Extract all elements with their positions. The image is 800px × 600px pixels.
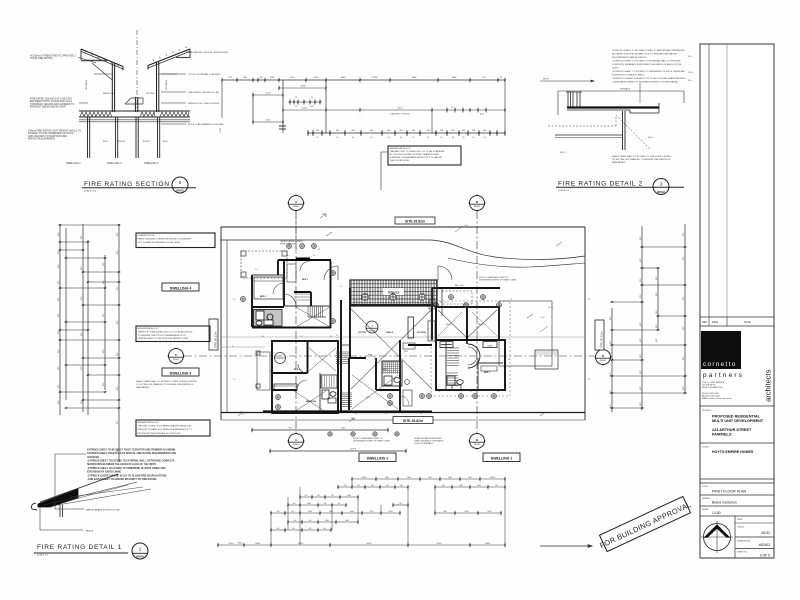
svg-text:DATE: DATE bbox=[712, 321, 719, 324]
svg-text:SITTING: SITTING bbox=[358, 332, 367, 334]
svg-text:FIRE RATING SECTION: FIRE RATING SECTION bbox=[84, 181, 170, 188]
svg-text:NOTE: NOTE bbox=[543, 79, 549, 81]
svg-text:11380: 11380 bbox=[372, 77, 378, 79]
svg-text:HOYTS EMPIRE HOMES: HOYTS EMPIRE HOMES bbox=[712, 450, 754, 454]
svg-text:JOB No: JOB No bbox=[737, 527, 745, 529]
svg-text:METRES AT THE FINISHED FLOOR L: METRES AT THE FINISHED FLOOR LEVEL bbox=[138, 432, 182, 435]
svg-text:architects: architects bbox=[764, 369, 773, 402]
svg-text:ENTRY: ENTRY bbox=[118, 141, 126, 143]
svg-text:SHEET CLADDING: SHEET CLADDING bbox=[280, 243, 297, 246]
svg-text:TO ENSURE THE PITCH TO A MAXIM: TO ENSURE THE PITCH TO A MAXIMUM OF 22 bbox=[138, 334, 187, 337]
svg-text:0000: 0000 bbox=[437, 543, 443, 545]
svg-text:DATE: DATE bbox=[737, 518, 743, 521]
svg-text:DWELLING 2: DWELLING 2 bbox=[367, 457, 389, 461]
svg-text:0000: 0000 bbox=[298, 543, 304, 545]
svg-text:WINDOW TO HAVE SILL HEIGHTS A: WINDOW TO HAVE SILL HEIGHTS A MINIMUM OF… bbox=[138, 428, 193, 431]
svg-text:WD401: WD401 bbox=[293, 444, 299, 446]
svg-text:90: 90 bbox=[473, 137, 475, 139]
svg-text:KITCHEN: KITCHEN bbox=[417, 332, 426, 334]
svg-text:MLS: MLS bbox=[163, 141, 168, 143]
svg-text:DWELLING 1: DWELLING 1 bbox=[491, 457, 513, 461]
svg-text:15: 15 bbox=[340, 286, 342, 288]
svg-text:35: 35 bbox=[588, 379, 590, 381]
svg-text:1k: 1k bbox=[295, 106, 297, 108]
svg-text:WD402: WD402 bbox=[173, 359, 179, 361]
svg-text:2,1: 2,1 bbox=[233, 379, 236, 381]
svg-text:SCALE 1:5: SCALE 1:5 bbox=[558, 189, 570, 192]
svg-text:SHEET No: SHEET No bbox=[737, 552, 748, 554]
svg-text:90: 90 bbox=[463, 137, 465, 139]
svg-text:UNITS: UNITS bbox=[612, 67, 619, 69]
svg-text:EXTENSION OF EAVES LINING: EXTENSION OF EAVES LINING bbox=[87, 471, 121, 474]
svg-text:BED 2: BED 2 bbox=[446, 324, 453, 326]
svg-text:DWELLING 4: DWELLING 4 bbox=[66, 162, 81, 165]
svg-text:OF 1.7m ABOVE FINISHED FLOOR L: OF 1.7m ABOVE FINISHED FLOOR LEVEL bbox=[138, 241, 182, 244]
svg-text:SITE 20.12m: SITE 20.12m bbox=[214, 331, 218, 348]
svg-text:ROOF LOAD BEARING STUD WALL: ROOF LOAD BEARING STUD WALL bbox=[188, 123, 225, 126]
svg-text:BEDROOM: BEDROOM bbox=[103, 93, 114, 95]
svg-text:2,4: 2,4 bbox=[470, 302, 473, 304]
svg-text:90: 90 bbox=[497, 391, 499, 393]
svg-text:-JOIN EAVES SHEET TO ENSURE IN: -JOIN EAVES SHEET TO ENSURE INTEGRITY OF… bbox=[87, 478, 157, 481]
svg-text:RATING REQUIREMENT: RATING REQUIREMENT bbox=[28, 138, 56, 141]
svg-text:SETBACK: SETBACK bbox=[620, 88, 631, 91]
svg-text:THE BALCONY TO DWELLING 2 IS T: THE BALCONY TO DWELLING 2 IS TO BE SCREE… bbox=[390, 150, 446, 153]
svg-text:BALCONY: BALCONY bbox=[455, 284, 465, 287]
svg-text:UNLEY SQUARE 2550: UNLEY SQUARE 2550 bbox=[702, 386, 724, 389]
svg-text:WD402: WD402 bbox=[474, 206, 480, 208]
svg-text:90: 90 bbox=[371, 137, 373, 139]
svg-text:DRAWING No: DRAWING No bbox=[737, 540, 751, 543]
svg-text:90: 90 bbox=[317, 137, 319, 139]
svg-text:FAIRFIELD: FAIRFIELD bbox=[712, 432, 732, 436]
svg-text:SHAFT LINER WALL TO EXTEND TO: SHAFT LINER WALL TO EXTEND TO THE PLATE … bbox=[612, 155, 671, 158]
svg-text:WD403: WD403 bbox=[759, 543, 770, 547]
svg-text:ACHIEVED: ACHIEVED bbox=[87, 456, 99, 459]
svg-text:OF SEC BELOW, ENABLED TO ENSUR: OF SEC BELOW, ENABLED TO ENSURE FIRE RAT… bbox=[612, 158, 671, 161]
svg-text:SITE 20.12m: SITE 20.12m bbox=[600, 331, 604, 348]
svg-text:06-92: 06-92 bbox=[761, 531, 770, 535]
svg-text:90: 90 bbox=[355, 413, 357, 415]
svg-text:PREVENT SMOKE BEAM OVER: PREVENT SMOKE BEAM OVER bbox=[30, 106, 66, 109]
svg-text:240: 240 bbox=[430, 283, 433, 285]
svg-text:EXTENSION OF EAVES LINING: EXTENSION OF EAVES LINING bbox=[612, 73, 644, 76]
svg-text:CORNICE NOTE: CORNICE NOTE bbox=[138, 235, 155, 237]
svg-text:NOTE: NOTE bbox=[744, 321, 751, 324]
svg-text:SETBACK: SETBACK bbox=[165, 79, 168, 90]
svg-text:THE UNIT 2 FIRST FLOORWEST FAC: THE UNIT 2 FIRST FLOORWEST FACING BEDROO… bbox=[138, 425, 192, 428]
svg-text:ADDENDUM No 10.2: ADDENDUM No 10.2 bbox=[138, 421, 160, 424]
svg-text:FIRE RATING DETAIL 1: FIRE RATING DETAIL 1 bbox=[37, 544, 122, 551]
svg-text:90: 90 bbox=[420, 413, 422, 415]
svg-text:4,2: 4,2 bbox=[233, 299, 236, 301]
svg-text:METAL ROOF LOAD ROOFING: METAL ROOF LOAD ROOFING bbox=[188, 102, 220, 105]
svg-text:ADDENDUM No 10.2: ADDENDUM No 10.2 bbox=[390, 147, 412, 150]
svg-text:-GYPROCK SHEET TO EXTEND TO UN: -GYPROCK SHEET TO EXTEND TO UNDERSIDE OF… bbox=[612, 70, 686, 73]
svg-text:BED 1: BED 1 bbox=[302, 279, 309, 281]
svg-text:RAFTER BEAMS SHOWN DOTTED: RAFTER BEAMS SHOWN DOTTED bbox=[86, 509, 120, 512]
svg-text:SHAFT LINER WALL TO EXTEND TO: SHAFT LINER WALL TO EXTEND TO AND PLATES… bbox=[136, 380, 197, 383]
svg-text:BEDROOM: BEDROOM bbox=[306, 401, 316, 403]
svg-text:BED 2: BED 2 bbox=[260, 296, 267, 298]
svg-text:90: 90 bbox=[440, 302, 442, 304]
svg-text:SCREENS TO A MINIMUM HEIGHT OF: SCREENS TO A MINIMUM HEIGHT OF 1.7m ABOV… bbox=[390, 156, 443, 159]
svg-text:90: 90 bbox=[441, 137, 443, 139]
svg-text:224 ARTHUR STREET: 224 ARTHUR STREET bbox=[712, 428, 752, 432]
svg-text:1,100: 1,100 bbox=[265, 93, 271, 95]
svg-text:REQUIREMENTS ARE ACHIEVED: REQUIREMENTS ARE ACHIEVED bbox=[612, 56, 647, 59]
svg-text:90: 90 bbox=[352, 137, 354, 139]
svg-text:2,4: 2,4 bbox=[385, 413, 388, 415]
svg-text:SCALE 1:5: SCALE 1:5 bbox=[37, 554, 49, 557]
svg-text:BY THE PROVISIONS OF FIXED TRA: BY THE PROVISIONS OF FIXED TRANSLUCENT bbox=[390, 153, 440, 156]
svg-text:90: 90 bbox=[484, 137, 486, 139]
svg-text:BED 3: BED 3 bbox=[478, 324, 485, 326]
svg-text:STAGGER 2 PLACES: STAGGER 2 PLACES bbox=[390, 113, 410, 116]
svg-text:MAINTAINED: MAINTAINED bbox=[136, 386, 150, 389]
svg-text:DWELLING 4: DWELLING 4 bbox=[170, 286, 192, 290]
svg-text:4,800: 4,800 bbox=[300, 86, 306, 88]
svg-text:MAINTAINED: MAINTAINED bbox=[612, 161, 626, 164]
svg-text:90: 90 bbox=[588, 299, 590, 301]
svg-text:WD403: WD403 bbox=[369, 330, 375, 332]
svg-text:3 OF 5: 3 OF 5 bbox=[760, 554, 770, 558]
svg-text:90: 90 bbox=[451, 107, 453, 109]
svg-text:8340: 8340 bbox=[238, 543, 244, 545]
svg-text:REV: REV bbox=[702, 321, 707, 324]
svg-text:DWELLING 2: DWELLING 2 bbox=[144, 162, 159, 165]
svg-text:W5A/G: W5A/G bbox=[176, 190, 184, 193]
svg-text:GYPROCK SHEET OVER PLAN TO SPE: GYPROCK SHEET OVER PLAN TO SPECIAL FIRE … bbox=[87, 452, 177, 455]
svg-text:SITE 39.82m: SITE 39.82m bbox=[405, 220, 425, 224]
svg-text:1,000: 1,000 bbox=[301, 108, 307, 110]
svg-text:25: 25 bbox=[510, 299, 512, 301]
svg-text:1:100: 1:100 bbox=[712, 511, 721, 515]
svg-text:DWELLING 3: DWELLING 3 bbox=[107, 162, 122, 165]
svg-text:MEALS: MEALS bbox=[386, 331, 394, 334]
svg-text:SETBACK: SETBACK bbox=[85, 79, 88, 90]
svg-text:GYPROCK SHEET TO BE SHEET FIXE: GYPROCK SHEET TO BE SHEET FIXED TO RAFTE… bbox=[87, 448, 176, 451]
svg-text:-GYPROCK SHEET TO EXTEND TO UN: -GYPROCK SHEET TO EXTEND TO UNDERSIDE OF… bbox=[87, 467, 166, 470]
svg-text:FAX: FAX (02) 4444 4444 bbox=[702, 395, 721, 398]
svg-text:ENTRY: ENTRY bbox=[143, 141, 151, 143]
svg-text:COLORBOND CUSTOM ORB ROOFING: COLORBOND CUSTOM ORB ROOFING bbox=[188, 52, 229, 54]
svg-text:AC/5: AC/5 bbox=[480, 113, 484, 116]
svg-text:WD401: WD401 bbox=[293, 206, 299, 208]
svg-text:2750: 2750 bbox=[220, 127, 222, 133]
svg-text:6470: 6470 bbox=[398, 108, 404, 110]
svg-text:0000: 0000 bbox=[362, 477, 368, 479]
svg-text:90: 90 bbox=[388, 137, 390, 139]
svg-text:MLS: MLS bbox=[103, 141, 108, 143]
svg-text:90: 90 bbox=[438, 391, 440, 393]
svg-text:WD403: WD403 bbox=[136, 556, 144, 559]
svg-text:BATH: BATH bbox=[382, 368, 387, 371]
svg-text:DRAWN: DRAWN bbox=[702, 497, 710, 500]
svg-text:90: 90 bbox=[336, 335, 338, 337]
svg-text:TO FLY BELOW, ENABLED TO ENSUR: TO FLY BELOW, ENABLED TO ENSURE FIRE RAT… bbox=[136, 383, 194, 386]
svg-text:15: 15 bbox=[470, 391, 472, 393]
svg-text:DEGREES AND TO PROVIDE THE HIP: DEGREES AND TO PROVIDE THE HIPPED FORM bbox=[138, 337, 189, 340]
svg-text:90: 90 bbox=[400, 137, 402, 139]
svg-text:WD403: WD403 bbox=[657, 191, 665, 194]
svg-text:DETERMINE EXTENT OF SHAFT LINE: DETERMINE EXTENT OF SHAFT LINER bbox=[353, 439, 391, 442]
svg-text:SEPARATION BETWEEN THE EAVES O: SEPARATION BETWEEN THE EAVES OF EACH OF … bbox=[87, 463, 156, 466]
svg-text:FASCIA: FASCIA bbox=[86, 530, 94, 533]
svg-text:HOUR FIRE RATING: HOUR FIRE RATING bbox=[30, 57, 53, 60]
svg-text:600: 600 bbox=[311, 106, 314, 108]
svg-text:30: 30 bbox=[445, 302, 447, 304]
svg-text:60: 60 bbox=[508, 359, 510, 361]
svg-text:THE FLOOR LEVEL: THE FLOOR LEVEL bbox=[390, 160, 411, 162]
svg-text:20: 20 bbox=[318, 249, 320, 251]
svg-text:14.00: 14.00 bbox=[548, 307, 554, 309]
svg-text:WD402: WD402 bbox=[474, 444, 480, 446]
svg-text:partners: partners bbox=[703, 372, 744, 379]
svg-text:Brand Centurion: Brand Centurion bbox=[712, 501, 737, 505]
svg-text:0000: 0000 bbox=[229, 543, 235, 545]
svg-text:90: 90 bbox=[311, 97, 313, 99]
svg-text:CLIENT: CLIENT bbox=[702, 447, 710, 449]
svg-text:90: 90 bbox=[262, 336, 264, 338]
svg-text:13Y-PLY EXTERNAL CLADDING: 13Y-PLY EXTERNAL CLADDING bbox=[188, 73, 221, 76]
svg-text:THE ROOF OVER DWELLING 3 & 4 T: THE ROOF OVER DWELLING 3 & 4 TO BE ADJUS… bbox=[138, 330, 193, 333]
svg-text:3,1: 3,1 bbox=[287, 255, 290, 257]
svg-text:SEC 1: SEC 1 bbox=[648, 137, 655, 139]
svg-text:COMPLETE SEPARATION BETWEEN TH: COMPLETE SEPARATION BETWEEN THE EAVES OF… bbox=[612, 63, 682, 66]
svg-text:0000: 0000 bbox=[367, 543, 373, 545]
svg-text:-GYPROCK GUSSET WHERE IS CUT T: -GYPROCK GUSSET WHERE IS CUT TO ALLOW FI… bbox=[87, 474, 167, 477]
svg-text:-JOINS EAVES SHEET TO ENSURE I: -JOINS EAVES SHEET TO ENSURE INTEGRITY O… bbox=[612, 80, 679, 83]
svg-text:TITLE: TITLE bbox=[702, 486, 708, 488]
svg-text:-GYPROCK SHEET TO EXTEND TO EX: -GYPROCK SHEET TO EXTEND TO EXTERNAL WAL… bbox=[612, 60, 681, 63]
svg-text:0000: 0000 bbox=[485, 543, 491, 545]
svg-text:90: 90 bbox=[313, 255, 315, 257]
svg-text:7140: 7140 bbox=[341, 428, 347, 430]
svg-text:90: 90 bbox=[413, 137, 415, 139]
svg-text:FIRE RATING DETAIL 2: FIRE RATING DETAIL 2 bbox=[558, 181, 643, 188]
svg-text:WIR: WIR bbox=[404, 351, 408, 353]
svg-text:BED 1: BED 1 bbox=[366, 397, 373, 399]
svg-text:AS PAPER JOINTS EDGE ARE GLUE: AS PAPER JOINTS EDGE ARE GLUE TO ENSURE … bbox=[612, 53, 677, 56]
svg-text:90: 90 bbox=[295, 97, 297, 99]
svg-text:PROJECT: PROJECT bbox=[702, 410, 712, 412]
svg-text:(1.8m2) INTERNALLY: (1.8m2) INTERNALLY bbox=[414, 442, 434, 445]
svg-text:FIRE RATED CEILINGS TO ALL: FIRE RATED CEILINGS TO ALL bbox=[188, 91, 220, 94]
svg-text:SCALE 1:50: SCALE 1:50 bbox=[84, 190, 97, 193]
svg-text:DWELLING 3: DWELLING 3 bbox=[170, 371, 192, 375]
svg-text:WD402: WD402 bbox=[600, 360, 606, 362]
svg-text:SITTING: SITTING bbox=[146, 93, 155, 95]
svg-text:13: 13 bbox=[355, 301, 357, 303]
svg-text:ADDENDUM No 10.2: ADDENDUM No 10.2 bbox=[138, 327, 160, 330]
svg-text:90: 90 bbox=[412, 301, 414, 303]
svg-text:PROPOSED RESIDENTIAL: PROPOSED RESIDENTIAL bbox=[712, 414, 761, 418]
svg-text:90: 90 bbox=[452, 137, 454, 139]
svg-text:90: 90 bbox=[430, 335, 432, 337]
svg-text:1,350: 1,350 bbox=[265, 120, 271, 122]
svg-text:FIRST FLOOR PLAN: FIRST FLOOR PLAN bbox=[712, 490, 746, 494]
svg-text:-GYPROCK SHEET TO EXTEND TO EX: -GYPROCK SHEET TO EXTEND TO EXTERNAL WAL… bbox=[87, 459, 175, 462]
svg-text:BED 1: BED 1 bbox=[484, 372, 491, 374]
svg-text:14370: 14370 bbox=[350, 449, 357, 451]
svg-text:MULTI UNIT DEVELOPMENT: MULTI UNIT DEVELOPMENT bbox=[712, 419, 764, 423]
svg-text:2,4: 2,4 bbox=[255, 269, 258, 271]
svg-text:1.8m: 1.8m bbox=[464, 225, 468, 227]
svg-text:DETERMINE EXTENT OF SHAFT LINE: DETERMINE EXTENT OF SHAFT LINER bbox=[479, 278, 517, 281]
svg-text:FIRED CEILINGS CORNICE MOULDED: FIRED CEILINGS CORNICE MOULDED TO A HEIG… bbox=[138, 238, 193, 241]
svg-text:EMAIL partners@cornetto.c: EMAIL partners@cornetto.com.au bbox=[702, 397, 732, 400]
svg-text:-GYPROCK GUSSET WHERE IS CUT T: -GYPROCK GUSSET WHERE IS CUT TO ALLOW FI… bbox=[612, 77, 686, 80]
svg-text:SCALE: SCALE bbox=[702, 508, 709, 511]
svg-text:GYPROCK SHEET TO BE SHEET FIXE: GYPROCK SHEET TO BE SHEET FIXED TO RAFTE… bbox=[612, 49, 685, 52]
svg-text:0000: 0000 bbox=[255, 543, 261, 545]
svg-text:SITE 39.82m: SITE 39.82m bbox=[403, 419, 423, 423]
svg-text:90: 90 bbox=[337, 137, 339, 139]
svg-text:cornetto: cornetto bbox=[703, 361, 737, 368]
svg-text:SEC 1: SEC 1 bbox=[560, 152, 567, 154]
svg-text:90: 90 bbox=[427, 137, 429, 139]
svg-text:0000: 0000 bbox=[490, 477, 496, 479]
svg-text:90: 90 bbox=[330, 336, 332, 338]
svg-text:2,4: 2,4 bbox=[300, 336, 303, 338]
